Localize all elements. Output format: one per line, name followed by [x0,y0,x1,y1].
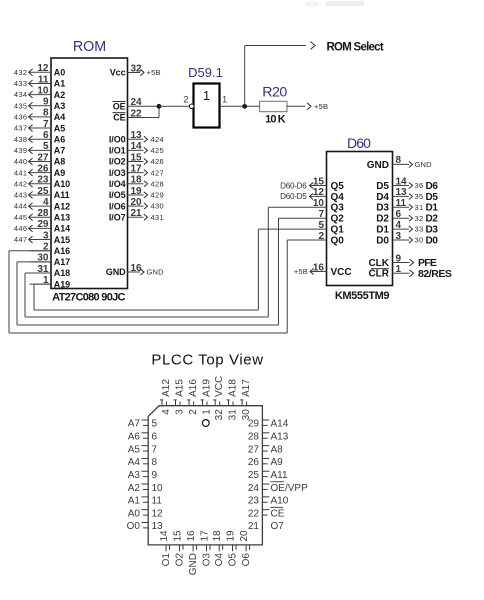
svg-text:428: 428 [151,179,165,188]
svg-text:29: 29 [37,219,49,230]
svg-text:A1: A1 [54,79,65,89]
svg-text:31: 31 [415,203,424,212]
svg-text:24: 24 [131,97,143,108]
svg-text:CLK: CLK [368,258,389,269]
svg-text:D1: D1 [376,225,389,236]
svg-text:KM555TM9: KM555TM9 [335,290,390,302]
svg-text:R20: R20 [262,85,287,101]
PLCC right pin 29 A14 [262,419,269,421]
PLCC bottom pin 15 O2 [179,545,181,551]
svg-text:A17: A17 [54,257,70,267]
svg-text:432: 432 [14,68,28,77]
svg-text:A5: A5 [54,123,65,133]
svg-text:429: 429 [151,191,165,200]
svg-text:O0: O0 [127,521,141,532]
svg-text:32: 32 [214,409,225,421]
svg-text:Q5: Q5 [331,181,345,192]
ROM pin 6 A6 stub [30,138,52,140]
ROM pin 29 A14 stub [30,227,52,229]
svg-text:14: 14 [396,176,408,187]
svg-text:A10: A10 [271,496,289,507]
D60 pin 6 D2 [393,217,410,219]
PLCC package outline [148,406,262,545]
ROM pin 25 A11 stub [30,194,52,196]
svg-text:A11: A11 [54,190,70,200]
svg-text:I/O7: I/O7 [109,212,126,222]
svg-text:18: 18 [212,530,223,542]
svg-text:D6: D6 [426,181,439,192]
svg-text:A19: A19 [202,379,213,397]
svg-text:9: 9 [43,97,49,108]
PLCC top pin 1 A19 [202,400,204,406]
svg-text:A3: A3 [128,470,141,481]
svg-text:4: 4 [161,409,172,415]
svg-text:436: 436 [14,113,28,122]
PLCC bottom pin 18 O4 [218,545,220,551]
svg-text:8: 8 [152,457,158,468]
svg-text:11: 11 [152,496,163,507]
svg-text:435: 435 [14,101,28,110]
svg-text:14: 14 [159,530,170,542]
wire OE junction to D59.1 input [159,105,190,107]
D60 pin 9 CLK [393,262,410,264]
svg-text:13: 13 [396,187,408,198]
svg-text:20: 20 [131,197,143,208]
svg-text:28: 28 [248,432,260,443]
svg-text:A11: A11 [271,470,288,481]
chip D60 box [327,152,393,286]
ROM pin 9 A3 stub [30,105,52,107]
svg-text:I/O4: I/O4 [109,179,126,189]
wire net A16-Q0 [9,250,51,252]
wire D59.1 output to R20 [220,105,260,107]
svg-text:Q3: Q3 [331,203,345,214]
svg-text:I/O1: I/O1 [109,146,126,156]
svg-text:Q0: Q0 [331,235,345,246]
net 437 arrow at ROM A5 [28,127,31,129]
svg-text:9: 9 [152,470,158,481]
svg-text:5: 5 [152,419,158,430]
svg-text:16: 16 [131,263,143,274]
ROM pin 23 A10 stub [30,183,52,185]
svg-text:A6: A6 [128,432,141,443]
svg-text:11: 11 [38,74,49,85]
svg-text:29: 29 [248,419,260,430]
svg-text:441: 441 [14,168,28,177]
svg-text:+5B: +5B [314,102,328,111]
svg-text:VCC: VCC [214,376,225,397]
ROM pin 24 OE [128,105,160,107]
wire net A17-Q2 [17,261,51,263]
svg-text:27: 27 [248,444,260,455]
PLCC right pin 25 A11 [262,470,269,472]
svg-text:VCC: VCC [331,267,352,278]
svg-text:14: 14 [131,141,143,152]
svg-text:32: 32 [131,63,143,74]
svg-text:D5: D5 [376,181,389,192]
D60 pin 13 D4 [393,195,410,197]
net 433 arrow at ROM A1 [28,82,31,84]
svg-text:A16: A16 [54,246,70,256]
svg-text:33: 33 [415,225,424,234]
svg-text:D4: D4 [376,192,389,203]
svg-text:3: 3 [396,231,402,242]
svg-text:A12: A12 [54,201,70,211]
svg-text:10: 10 [152,483,164,494]
svg-text:D0: D0 [376,235,389,246]
svg-text:A3: A3 [54,101,65,111]
PLCC right pin 26 A9 [262,457,269,459]
ROM pin 4 A12 stub [30,205,52,207]
svg-text:445: 445 [14,213,28,222]
ROM pin 15 I/O2 [128,161,144,163]
svg-text:CE: CE [271,508,285,519]
svg-text:A18: A18 [228,379,239,397]
svg-text:A5: A5 [128,444,141,455]
svg-text:444: 444 [14,202,28,211]
svg-text:15: 15 [173,530,184,542]
D60 pin 16 VCC [310,271,327,273]
PLCC left pin 5 A7 [141,419,148,421]
PLCC top pin 32 VCC [214,400,216,406]
wire R20 to +5B [287,105,305,107]
svg-text:36: 36 [415,181,424,190]
net 443 arrow at ROM A11 [28,194,31,196]
svg-text:A15: A15 [175,379,186,397]
PLCC bottom pin 20 O6 [245,545,247,551]
ROM pin 16 GND [128,271,141,273]
svg-text:10: 10 [37,85,49,96]
PLCC bottom pin 16 GND [192,545,194,551]
svg-text:25: 25 [248,470,260,481]
net 435 arrow at ROM A3 [28,105,31,107]
PLCC right pin 22 CE [262,509,269,511]
svg-text:5: 5 [43,141,49,152]
svg-text:O5: O5 [228,553,239,567]
inverter D59.1 box [194,84,220,128]
svg-text:A9: A9 [54,168,65,178]
svg-text:I/O3: I/O3 [109,168,126,178]
ROM pin 12 A0 stub [30,71,52,73]
net 434 arrow at ROM A2 [28,94,31,96]
inverter D59.1 input bubble [189,104,194,109]
svg-text:8: 8 [43,108,49,119]
net 446 arrow at ROM A14 [28,227,31,229]
svg-text:D59.1: D59.1 [188,65,223,80]
D60 pin 11 D3 [393,206,410,208]
svg-text:I/O2: I/O2 [109,157,126,167]
svg-text:Q4: Q4 [331,192,345,203]
ROM pin 8 A4 stub [30,116,52,118]
ROM Select arrowhead [311,42,316,50]
svg-text:30: 30 [415,236,424,245]
svg-text:A7: A7 [54,146,65,156]
svg-text:OE/VPP: OE/VPP [271,483,309,494]
PLCC top pin 30 A17 [241,400,243,406]
svg-text:O1: O1 [161,553,172,567]
svg-text:424: 424 [151,135,165,144]
wire net A18-Q3 [25,272,51,274]
svg-text:A0: A0 [128,508,141,519]
svg-text:D2: D2 [426,214,439,225]
svg-text:D60: D60 [347,135,371,151]
PLCC bottom pin 17 O3 [206,545,208,551]
svg-text:24: 24 [248,483,260,494]
net 439 arrow at ROM A7 [28,149,31,151]
ROM pin 2 A16 stub [30,250,52,252]
svg-text:6: 6 [152,432,158,443]
svg-text:7: 7 [152,444,158,455]
svg-text:D2: D2 [376,214,389,225]
ROM pin 13 I/O0 [128,138,144,140]
svg-text:438: 438 [14,135,28,144]
svg-text:17: 17 [200,530,211,542]
svg-text:A1: A1 [128,496,141,507]
junction dot at D59.1 output [242,104,247,109]
PLCC top pin 3 A15 [175,400,177,406]
svg-text:A0: A0 [54,68,65,78]
PLCC right pin 27 A8 [262,445,269,447]
svg-text:A8: A8 [271,444,284,455]
svg-text:434: 434 [14,90,28,99]
svg-text:A18: A18 [54,268,70,278]
svg-text:GND: GND [147,268,165,277]
svg-text:GND: GND [188,553,199,575]
PLCC left pin 6 A6 [141,432,148,434]
svg-text:19: 19 [131,186,143,197]
svg-text:4: 4 [396,220,402,231]
svg-text:23: 23 [248,496,260,507]
svg-text:CE: CE [113,113,125,123]
svg-text:9: 9 [396,253,402,264]
PLCC left pin 11 A1 [141,496,148,498]
svg-text:GND: GND [106,267,126,277]
svg-text:A2: A2 [128,483,141,494]
ROM pin 21 I/O7 [128,216,144,218]
svg-text:A9: A9 [271,457,284,468]
svg-text:21: 21 [131,208,143,219]
svg-text:A2: A2 [54,90,65,100]
svg-text:440: 440 [14,157,28,166]
svg-text:26: 26 [37,163,49,174]
svg-text:3: 3 [43,230,49,241]
net 440 arrow at ROM A8 [28,161,31,163]
ROM pin 7 A5 stub [30,127,52,129]
svg-text:A17: A17 [241,379,252,397]
PLCC left pin 12 A0 [141,509,148,511]
svg-text:A6: A6 [54,134,65,144]
D60 pin 3 D0 [393,239,410,241]
PLCC left pin 7 A5 [141,445,148,447]
ROM pin 10 A2 stub [30,94,52,96]
svg-text:PLCC Top View: PLCC Top View [151,352,263,369]
ROM pin 28 A13 stub [30,216,52,218]
svg-text:443: 443 [14,191,28,200]
D60 Q4 stub to D60-D5 [310,195,327,197]
svg-text:A13: A13 [271,432,289,443]
svg-text:O3: O3 [202,553,213,567]
PLCC left pin 8 A4 [141,457,148,459]
faint artifact top [326,1,364,6]
svg-text:1: 1 [203,88,210,103]
PLCC top pin 2 A16 [188,400,190,406]
svg-text:CLR: CLR [368,269,389,280]
svg-text:A4: A4 [128,457,141,468]
svg-text:11: 11 [396,198,407,209]
svg-text:15: 15 [131,152,143,163]
svg-text:O2: O2 [175,553,186,567]
svg-text:1: 1 [396,264,402,275]
svg-text:6: 6 [43,130,49,141]
svg-text:D0: D0 [426,235,439,246]
svg-text:A15: A15 [54,235,70,245]
ROM pin 19 I/O5 [128,194,144,196]
svg-text:7: 7 [43,119,49,130]
net 444 arrow at ROM A12 [28,205,31,207]
svg-text:16: 16 [186,530,197,542]
net 432 arrow at ROM A0 [28,71,31,73]
svg-text:426: 426 [151,157,165,166]
wire net A19-Q1 [34,283,51,285]
svg-text:2: 2 [183,95,188,106]
ROM pin 30 A17 stub [30,261,52,263]
D60 pin 4 D1 [393,228,410,230]
svg-text:I/O6: I/O6 [109,201,126,211]
PLCC pin 1 index circle [202,420,209,427]
svg-text:442: 442 [14,179,28,188]
ROM pin 14 I/O1 [128,149,144,151]
svg-text:+5B: +5B [294,267,308,276]
svg-text:430: 430 [151,202,165,211]
svg-text:6: 6 [396,209,402,220]
ROM pin 1 A19 stub [30,283,52,285]
svg-text:22: 22 [131,108,143,119]
svg-text:A13: A13 [54,212,70,222]
chip ROM box [51,58,128,289]
PLCC top pin 31 A18 [228,400,230,406]
svg-text:A16: A16 [188,379,199,397]
PLCC bottom pin 19 O5 [232,545,234,551]
svg-text:20: 20 [239,530,250,542]
svg-text:A10: A10 [54,179,70,189]
svg-text:12: 12 [152,508,164,519]
svg-text:GND: GND [367,160,389,171]
ROM pin 22 CE [128,117,160,119]
ROM pin 11 A1 stub [30,82,52,84]
svg-text:A14: A14 [54,224,70,234]
svg-text:433: 433 [14,79,28,88]
svg-text:OE: OE [113,102,126,112]
svg-text:D1: D1 [426,203,439,214]
net 436 arrow at ROM A4 [28,116,31,118]
svg-text:425: 425 [151,146,165,155]
PLCC right pin 24 OE/VPP [262,483,269,485]
svg-text:10 K: 10 K [265,114,286,126]
svg-text:A7: A7 [128,419,141,430]
PLCC right pin 28 A13 [262,432,269,434]
svg-text:16: 16 [313,262,325,273]
svg-text:4: 4 [43,197,49,208]
svg-text:27: 27 [37,152,49,163]
svg-text:23: 23 [37,175,49,186]
svg-text:O4: O4 [214,553,225,567]
ROM pin 17 I/O3 [128,172,144,174]
svg-text:AT27C080 90JC: AT27C080 90JC [52,292,125,304]
svg-text:3: 3 [175,409,186,415]
svg-text:19: 19 [226,530,237,542]
svg-text:D3: D3 [426,225,439,236]
net 445 arrow at ROM A13 [28,216,31,218]
resistor R20 body [260,101,287,111]
ROM pin 31 A18 stub [30,272,52,274]
svg-text:O6: O6 [241,553,252,567]
svg-text:O7: O7 [271,521,285,532]
junction dot at OE/CE [157,104,162,109]
svg-text:1: 1 [202,409,213,415]
svg-text:437: 437 [14,124,28,133]
svg-text:447: 447 [14,235,28,244]
svg-text:32: 32 [415,214,424,223]
svg-text:A12: A12 [161,379,172,397]
net 438 arrow at ROM A6 [28,138,31,140]
svg-text:D3: D3 [376,203,389,214]
svg-text:Q2: Q2 [331,214,345,225]
PLCC bottom pin 14 O1 [165,545,167,551]
PLCC left pin 13 O0 [141,521,148,523]
PLCC top pin 4 A12 [161,400,163,406]
ROM pin 32 Vcc [128,72,141,74]
svg-text:439: 439 [14,146,28,155]
svg-text:17: 17 [131,163,143,174]
net 442 arrow at ROM A10 [28,183,31,185]
svg-text:427: 427 [151,168,165,177]
svg-text:446: 446 [14,224,28,233]
svg-text:13: 13 [131,130,143,141]
D60 Q5 stub to D60-D6 [310,185,327,187]
svg-text:26: 26 [248,457,260,468]
net 441 arrow at ROM A9 [28,172,31,174]
ROM pin 27 A8 stub [30,161,52,163]
PLCC left pin 10 A2 [141,483,148,485]
svg-text:431: 431 [151,213,165,222]
ROM pin 3 A15 stub [30,239,52,241]
svg-text:D60-D6: D60-D6 [280,181,307,190]
ROM pin 18 I/O4 [128,183,144,185]
ROM pin 5 A7 stub [30,149,52,151]
PLCC right pin 23 A10 [262,496,269,498]
ROM pin 26 A9 stub [30,172,52,174]
svg-text:ROM Select: ROM Select [327,42,384,54]
D60 pin 1 CLR [393,272,410,274]
svg-text:1: 1 [222,95,227,106]
svg-text:I/O5: I/O5 [109,190,126,200]
PLCC left pin 9 A3 [141,470,148,472]
svg-text:8: 8 [396,155,402,166]
svg-text:18: 18 [131,175,143,186]
svg-text:2: 2 [188,409,199,415]
svg-text:12: 12 [37,63,49,74]
svg-text:22: 22 [248,508,260,519]
wire to ROM Select [244,46,246,107]
svg-text:A14: A14 [271,419,289,430]
svg-text:31: 31 [228,409,239,421]
wire CE up to OE junction [158,106,160,117]
svg-text:35: 35 [415,192,424,201]
svg-text:25: 25 [37,186,49,197]
svg-text:Vcc: Vcc [110,68,126,78]
svg-text:A4: A4 [54,112,65,122]
ROM pin 20 I/O6 [128,205,144,207]
